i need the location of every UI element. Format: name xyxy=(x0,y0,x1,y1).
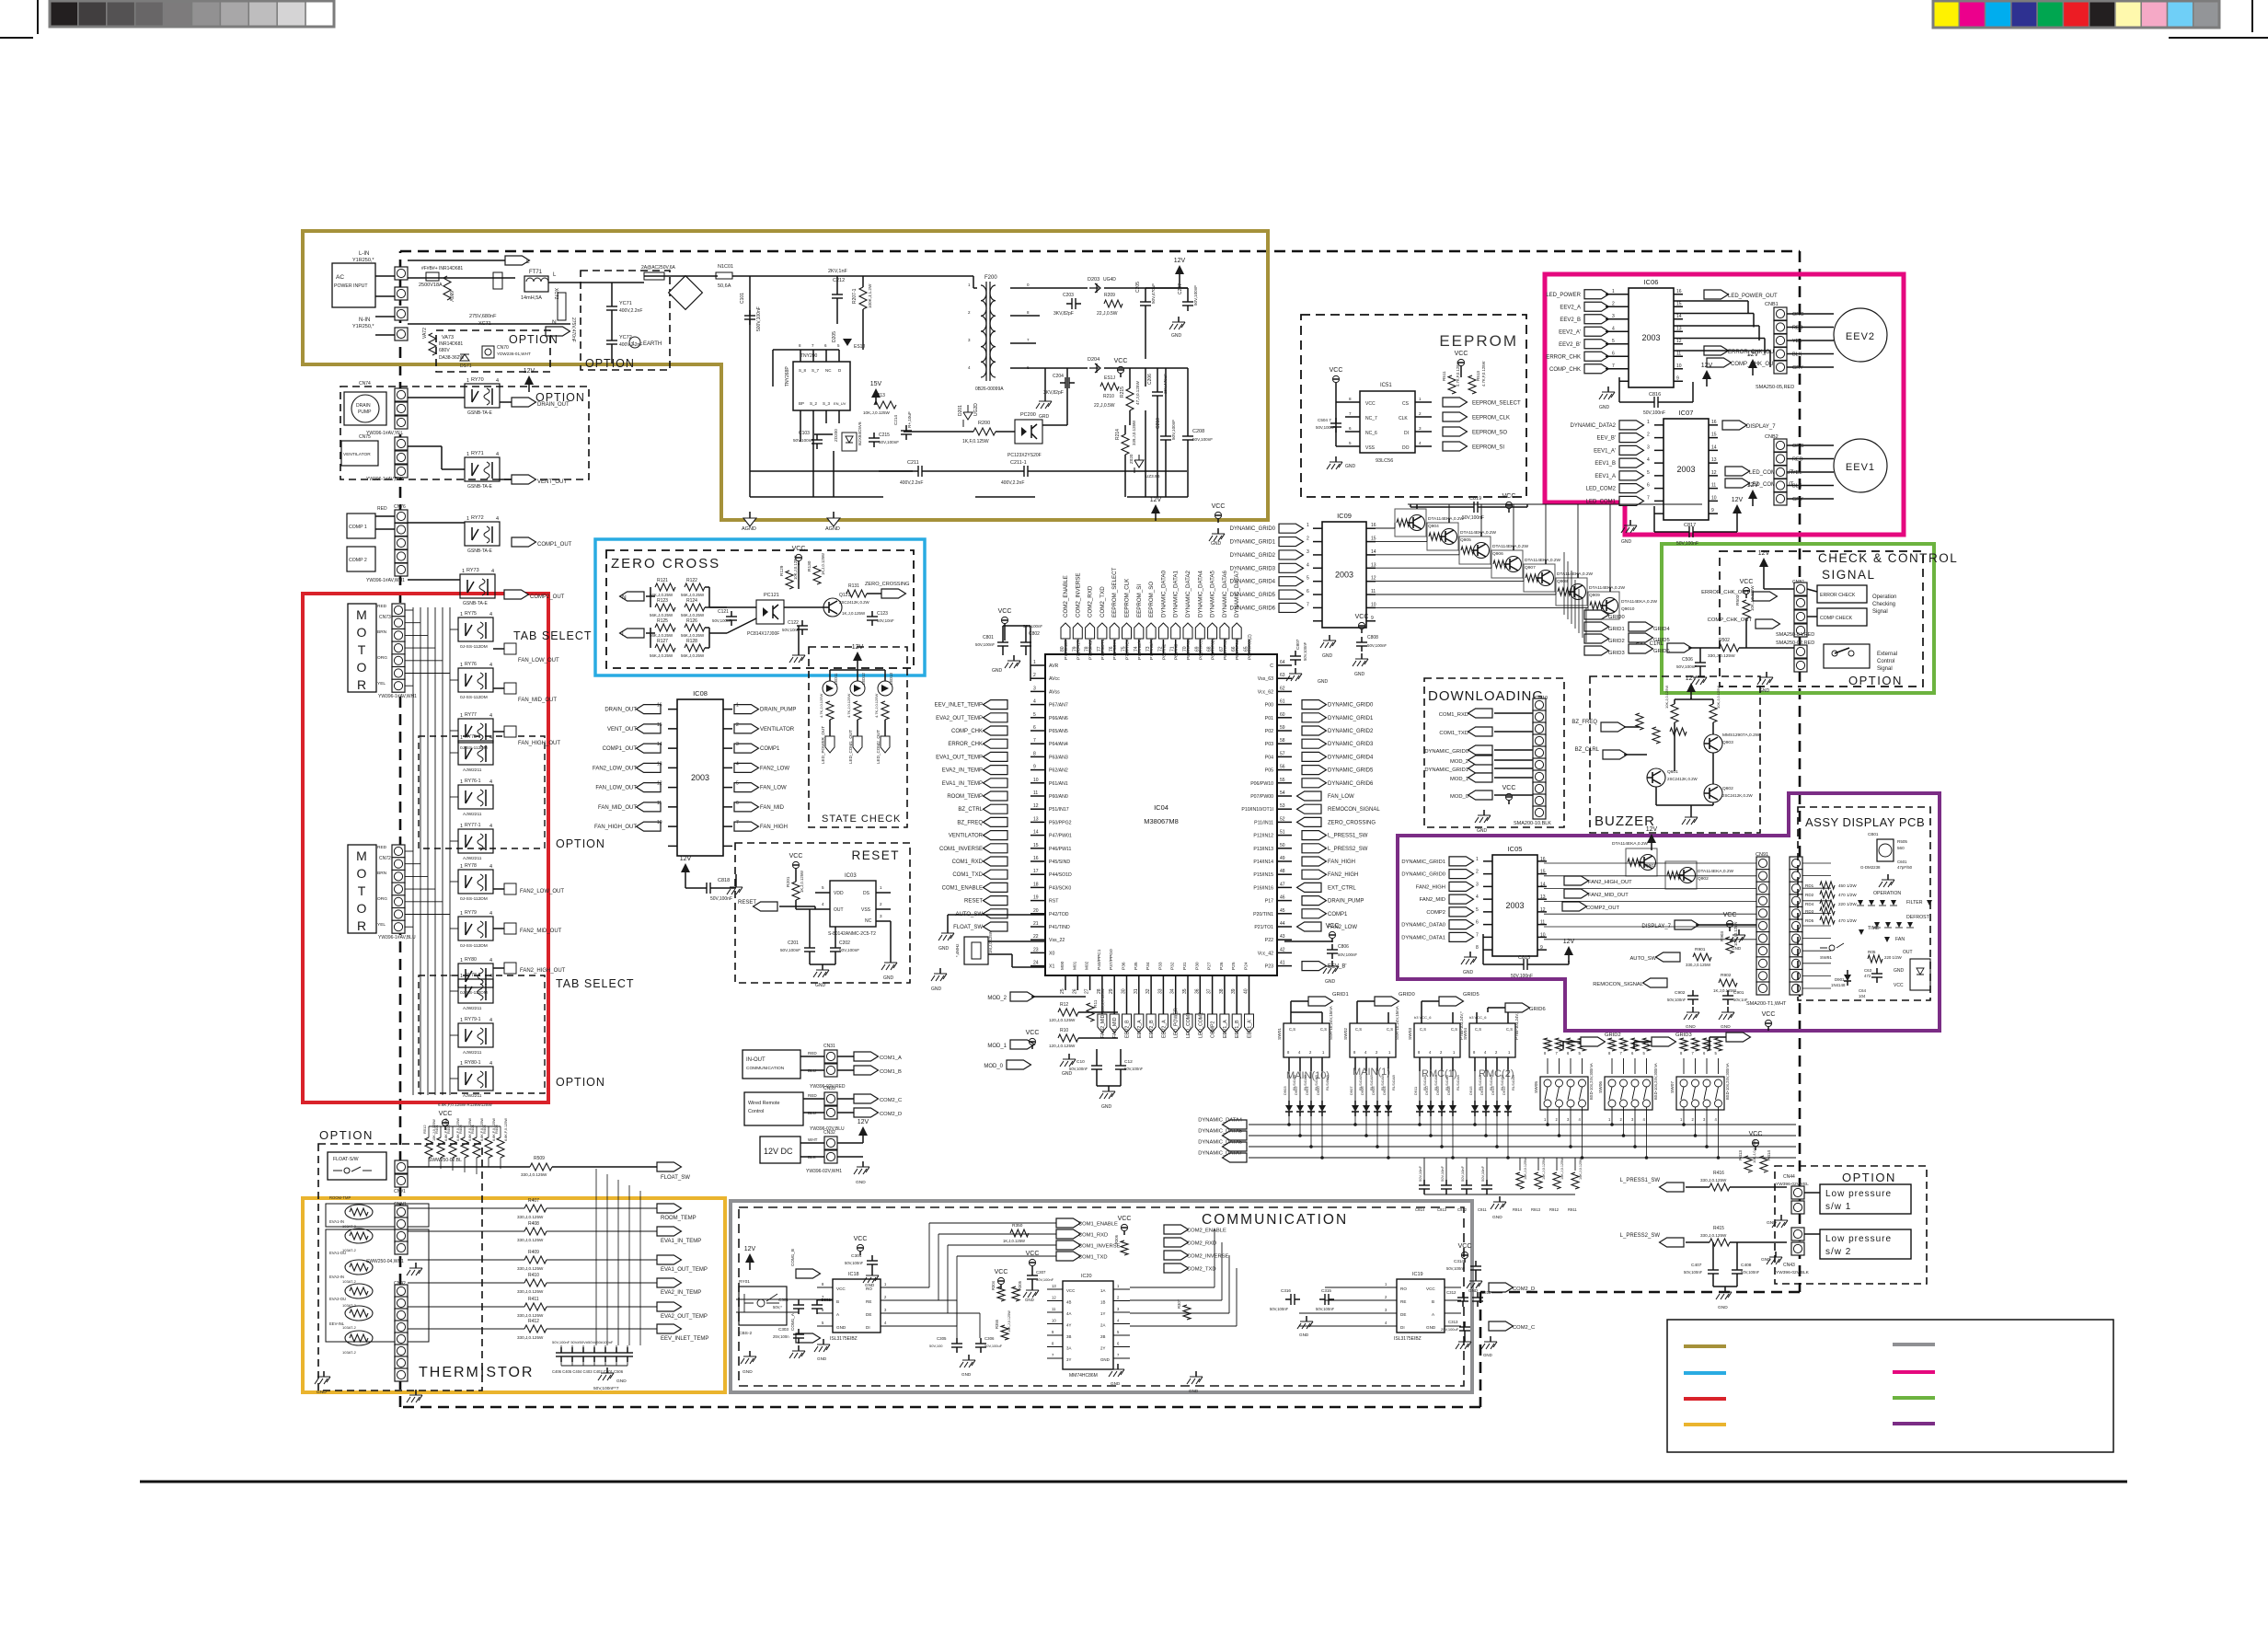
svg-text:P37/PPG0: P37/PPG0 xyxy=(1109,949,1114,970)
svg-text:R: R xyxy=(1647,1043,1651,1045)
svg-text:SWW250-02.BL: SWW250-02.BL xyxy=(429,1158,462,1163)
svg-text:4: 4 xyxy=(822,902,824,906)
svg-text:STATE CHECK: STATE CHECK xyxy=(822,813,901,825)
svg-text:ORG: ORG xyxy=(1792,444,1804,449)
svg-text:EEV2_A: EEV2_A xyxy=(1161,1020,1167,1038)
svg-text:R901: R901 xyxy=(1695,947,1706,952)
svg-text:50V,100nF: 50V,100nF xyxy=(975,642,995,647)
svg-text:LED_COM1: LED_COM1 xyxy=(1586,499,1617,504)
svg-text:5: 5 xyxy=(1307,576,1309,582)
svg-text:DYNAMIC_GRID5: DYNAMIC_GRID5 xyxy=(1328,768,1374,774)
svg-text:R413: R413 xyxy=(1738,1150,1743,1160)
svg-text:16: 16 xyxy=(1371,523,1376,528)
svg-text:2SC2412K,0.2W: 2SC2412K,0.2W xyxy=(1722,793,1754,798)
svg-text:RD1: RD1 xyxy=(1805,883,1814,888)
svg-text:56K,J,0.25W: 56K,J,0.25W xyxy=(681,633,705,638)
svg-text:0J-SS-112DM: 0J-SS-112DM xyxy=(460,644,488,650)
svg-text:50V,100nF: 50V,100nF xyxy=(1036,1277,1054,1282)
svg-text:RLS4148: RLS4148 xyxy=(1511,1075,1515,1090)
svg-text:1K,J,0.125W: 1K,J,0.125W xyxy=(821,553,825,575)
svg-text:EEV1_A': EEV1_A' xyxy=(1248,1019,1253,1038)
svg-text:FILTER: FILTER xyxy=(1906,900,1923,906)
svg-text:R: R xyxy=(357,677,366,692)
svg-text:10K,J,0.125W: 10K,J,0.125W xyxy=(793,556,798,580)
svg-text:SMA250-04,RED: SMA250-04,RED xyxy=(1776,632,1814,638)
svg-text:41: 41 xyxy=(1280,961,1285,966)
svg-text:P12/IN12: P12/IN12 xyxy=(1253,834,1273,839)
svg-text:COM2_TXD: COM2_TXD xyxy=(1187,1267,1216,1273)
svg-text:AUTO_SW: AUTO_SW xyxy=(1629,956,1656,962)
svg-text:REMOCON_SIGNAL: REMOCON_SIGNAL xyxy=(1328,807,1380,813)
svg-text:VCC: VCC xyxy=(1026,1251,1040,1257)
svg-text:13: 13 xyxy=(1676,326,1682,331)
svg-text:4Y: 4Y xyxy=(1066,1323,1071,1328)
svg-text:DYNAMIC_DATA6: DYNAMIC_DATA6 xyxy=(1222,570,1228,617)
svg-text:220 1/2W: 220 1/2W xyxy=(1838,902,1857,906)
svg-text:19: 19 xyxy=(1033,895,1039,901)
svg-text:1: 1 xyxy=(460,735,463,741)
svg-text:C819: C819 xyxy=(1469,496,1481,502)
svg-text:GSNB-TA-E: GSNB-TA-E xyxy=(467,410,493,416)
svg-text:100K,J,1.2W: 100K,J,1.2W xyxy=(868,283,872,308)
svg-text:34: 34 xyxy=(1170,988,1176,994)
svg-text:DYNAMIC_DATA2: DYNAMIC_DATA2 xyxy=(1185,570,1192,617)
svg-text:EEV2_B': EEV2_B' xyxy=(1559,342,1581,348)
svg-text:D902: D902 xyxy=(1294,1086,1298,1095)
svg-text:14mH,5A: 14mH,5A xyxy=(521,295,542,301)
svg-text:400V,2.2nF: 400V,2.2nF xyxy=(619,308,642,314)
svg-text:DTA114EKA,0.2W: DTA114EKA,0.2W xyxy=(1621,599,1657,605)
svg-text:L_PRESS2_SW: L_PRESS2_SW xyxy=(1620,1233,1661,1239)
svg-text:LED_COM1: LED_COM1 xyxy=(1186,1012,1192,1038)
svg-text:61: 61 xyxy=(1280,699,1285,705)
svg-text:C902: C902 xyxy=(1675,990,1686,996)
svg-text:15: 15 xyxy=(1033,843,1039,848)
svg-text:IC51: IC51 xyxy=(1380,383,1392,388)
svg-text:PUMP: PUMP xyxy=(358,410,372,415)
svg-text:47,J,0.125W: 47,J,0.125W xyxy=(1135,381,1140,405)
svg-text:GND: GND xyxy=(1463,970,1474,975)
svg-text:COM1_INVERSE: COM1_INVERSE xyxy=(939,847,983,852)
svg-text:COM2_D: COM2_D xyxy=(1513,1287,1535,1292)
svg-text:0J-SS-112DM: 0J-SS-112DM xyxy=(460,695,488,700)
svg-text:RY78: RY78 xyxy=(465,863,477,869)
svg-text:50V,100nF: 50V,100nF xyxy=(793,438,813,443)
svg-text:50V,10nF: 50V,10nF xyxy=(1418,1165,1422,1182)
svg-text:P43/SCK0: P43/SCK0 xyxy=(1049,885,1071,891)
svg-text:52: 52 xyxy=(1280,816,1285,822)
svg-text:R402: R402 xyxy=(446,1125,451,1134)
svg-text:48: 48 xyxy=(1280,869,1285,874)
svg-text:GND: GND xyxy=(1101,1104,1112,1110)
svg-text:R123: R123 xyxy=(657,598,668,604)
svg-text:P04: P04 xyxy=(1265,755,1273,760)
svg-text:330,J,0.125W: 330,J,0.125W xyxy=(517,1266,544,1271)
svg-text:C,S: C,S xyxy=(1420,1027,1426,1032)
svg-text:GSNB-TA-E: GSNB-TA-E xyxy=(467,484,493,490)
svg-text:C815: C815 xyxy=(1518,955,1530,961)
svg-text:12V DC: 12V DC xyxy=(764,1147,793,1156)
svg-text:15: 15 xyxy=(657,722,662,728)
svg-text:FAN2_HIGH: FAN2_HIGH xyxy=(1416,884,1445,890)
svg-text:57: 57 xyxy=(1280,751,1285,756)
svg-text:16: 16 xyxy=(1711,420,1717,425)
svg-text:RO: RO xyxy=(1400,1287,1407,1291)
svg-text:GRID1: GRID1 xyxy=(1332,992,1349,998)
svg-text:50V,100nF: 50V,100nF xyxy=(1741,1270,1760,1275)
svg-text:P45/SIND: P45/SIND xyxy=(1049,860,1070,865)
svg-text:Z020: Z020 xyxy=(1129,454,1134,464)
svg-text:S_3: S_3 xyxy=(823,401,831,406)
svg-text:FAN_HIGH: FAN_HIGH xyxy=(1328,860,1355,865)
svg-text:O: O xyxy=(357,660,367,675)
svg-text:20: 20 xyxy=(1033,908,1039,914)
svg-text:P10/IN10/OT1I: P10/IN10/OT1I xyxy=(1241,807,1273,813)
svg-text:Vss_22: Vss_22 xyxy=(1049,938,1065,943)
svg-text:103AT-2: 103AT-2 xyxy=(342,1279,357,1284)
svg-text:RLS4148: RLS4148 xyxy=(1391,1075,1396,1090)
svg-text:3: 3 xyxy=(880,914,882,918)
svg-text:13: 13 xyxy=(657,761,662,767)
svg-text:P25: P25 xyxy=(1231,962,1237,970)
svg-text:1: 1 xyxy=(460,779,463,785)
svg-text:FAN2_HIGH_OUT: FAN2_HIGH_OUT xyxy=(520,968,566,974)
svg-text:MMS12907A,0.2W: MMS12907A,0.2W xyxy=(1722,733,1760,738)
svg-text:D203: D203 xyxy=(1088,277,1099,283)
svg-text:D914: D914 xyxy=(1479,1086,1484,1095)
svg-text:RED: RED xyxy=(808,1093,817,1098)
svg-text:X0: X0 xyxy=(1049,951,1054,956)
svg-text:EEV1_A: EEV1_A xyxy=(1223,1020,1228,1038)
svg-text:21: 21 xyxy=(1033,921,1039,927)
svg-text:VCC: VCC xyxy=(1365,401,1376,407)
svg-text:EVA1_OUT_TEMP: EVA1_OUT_TEMP xyxy=(661,1267,708,1273)
svg-text:2KV,1nF: 2KV,1nF xyxy=(828,269,848,274)
svg-text:FAN_LOW: FAN_LOW xyxy=(1328,794,1354,800)
svg-text:OPTION: OPTION xyxy=(1842,1171,1896,1184)
svg-text:DYNAMIC_DATA0: DYNAMIC_DATA0 xyxy=(1160,570,1167,617)
svg-text:DYNAMIC_GRID2: DYNAMIC_GRID2 xyxy=(1328,729,1374,734)
svg-text:4: 4 xyxy=(489,864,492,870)
svg-text:SW91: SW91 xyxy=(1820,955,1832,961)
svg-text:2SC2412K,0.2W: 2SC2412K,0.2W xyxy=(839,600,870,605)
svg-text:IC05: IC05 xyxy=(1508,845,1523,853)
svg-text:P27: P27 xyxy=(1207,962,1213,970)
svg-text:#F#B#+ INR14D681: #F#B#+ INR14D681 xyxy=(421,266,463,271)
svg-text:3B: 3B xyxy=(1066,1334,1071,1339)
svg-text:50V,10nF: 50V,10nF xyxy=(1460,1165,1465,1182)
svg-text:DYNAMIC_DATA5: DYNAMIC_DATA5 xyxy=(1198,1129,1242,1135)
svg-text:2: 2 xyxy=(1419,411,1422,416)
svg-text:PT65-103,24V,*: PT65-103,24V,* xyxy=(1514,1011,1519,1040)
svg-text:EEPROM_SELECT: EEPROM_SELECT xyxy=(1472,401,1521,407)
svg-text:L_PRESS2_SW: L_PRESS2_SW xyxy=(1328,847,1368,852)
svg-text:1: 1 xyxy=(460,974,463,979)
svg-text:R130: R130 xyxy=(807,560,812,571)
svg-text:EEV_INLET_TEMP: EEV_INLET_TEMP xyxy=(661,1336,708,1342)
svg-text:1B: 1B xyxy=(1100,1300,1105,1305)
svg-text:GND: GND xyxy=(836,1325,846,1330)
svg-text:R121: R121 xyxy=(657,578,668,583)
svg-text:D903: D903 xyxy=(1283,1086,1287,1095)
svg-text:14: 14 xyxy=(1711,444,1717,450)
svg-text:P66/AN6: P66/AN6 xyxy=(1049,716,1068,721)
svg-text:P30: P30 xyxy=(1194,962,1200,970)
svg-text:COMP1: COMP1 xyxy=(760,746,780,752)
svg-text:COM1_TXD: COM1_TXD xyxy=(1078,1255,1108,1261)
svg-text:VCC: VCC xyxy=(1740,579,1754,585)
svg-text:C122: C122 xyxy=(788,620,799,626)
svg-text:VCC: VCC xyxy=(854,1236,868,1242)
svg-text:RY78-1: RY78-1 xyxy=(465,973,481,978)
svg-text:VCC: VCC xyxy=(1066,1288,1075,1293)
svg-text:C801: C801 xyxy=(983,635,994,640)
svg-text:GND: GND xyxy=(961,1372,972,1377)
svg-text:50V,*: 50V,* xyxy=(773,1305,782,1310)
svg-text:2Y: 2Y xyxy=(1100,1346,1105,1351)
svg-text:50V,100nF: 50V,100nF xyxy=(1192,437,1213,442)
svg-text:0B26-00099A: 0B26-00099A xyxy=(975,387,1004,392)
svg-text:VCC: VCC xyxy=(1114,358,1128,364)
svg-text:0J-SS-112DM: 0J-SS-112DM xyxy=(460,943,488,949)
svg-text:DO: DO xyxy=(1402,445,1410,451)
svg-text:12V: 12V xyxy=(1174,258,1186,264)
svg-text:COMP1: COMP1 xyxy=(1328,912,1348,917)
svg-text:DYNAMIC_GRID6: DYNAMIC_GRID6 xyxy=(1328,781,1374,787)
svg-text:680V: 680V xyxy=(448,291,454,302)
svg-text:C912: C912 xyxy=(1457,1207,1468,1212)
svg-text:DEFROST: DEFROST xyxy=(1906,915,1930,920)
svg-text:2: 2 xyxy=(880,902,882,906)
svg-text:GND: GND xyxy=(1062,1071,1073,1077)
svg-text:10K,J,0.125W: 10K,J,0.125W xyxy=(1716,686,1721,709)
svg-text:G-DM2238: G-DM2238 xyxy=(1860,865,1881,870)
svg-text:S_7: S_7 xyxy=(812,368,820,373)
svg-text:DYNAMIC_GRID5: DYNAMIC_GRID5 xyxy=(1230,593,1276,598)
svg-text:120,J,0.125W: 120,J,0.125W xyxy=(1049,1018,1076,1022)
svg-text:CNB1: CNB1 xyxy=(1765,302,1779,307)
svg-text:INR14D681: INR14D681 xyxy=(439,341,463,347)
svg-text:COM1_RXD: COM1_RXD xyxy=(1078,1233,1108,1239)
svg-text:GSNB-TA-E: GSNB-TA-E xyxy=(467,548,493,554)
svg-text:ERROR_CHK: ERROR_CHK xyxy=(1546,354,1581,360)
svg-text:4: 4 xyxy=(489,1018,492,1023)
svg-text:LED_POWER: LED_POWER xyxy=(1174,1008,1180,1038)
svg-text:DS: DS xyxy=(863,891,870,896)
svg-text:6: 6 xyxy=(1349,426,1352,431)
svg-text:R: R xyxy=(1612,1043,1616,1045)
svg-text:10K,J,0.125W: 10K,J,0.125W xyxy=(1664,686,1669,709)
svg-text:7: 7 xyxy=(1476,932,1479,938)
svg-text:4: 4 xyxy=(489,663,492,668)
svg-text:GND: GND xyxy=(1599,405,1610,410)
svg-text:2003: 2003 xyxy=(1335,571,1353,580)
svg-text:14: 14 xyxy=(1371,549,1376,555)
svg-text:COM1_TXD: COM1_TXD xyxy=(1439,731,1468,736)
svg-text:YEL: YEL xyxy=(1792,470,1802,476)
svg-text:4.7K,J,0.125W: 4.7K,J,0.125W xyxy=(819,694,823,718)
svg-text:R412: R412 xyxy=(528,1319,539,1324)
svg-text:LED12: LED12 xyxy=(861,673,866,685)
svg-text:1: 1 xyxy=(466,516,469,522)
svg-text:7: 7 xyxy=(736,820,739,825)
svg-text:CN74: CN74 xyxy=(359,381,371,387)
svg-text:P00: P00 xyxy=(1265,703,1273,709)
svg-text:D901: D901 xyxy=(1835,977,1845,982)
svg-text:R: R xyxy=(1548,1043,1551,1045)
svg-text:RY77-1: RY77-1 xyxy=(465,823,481,828)
svg-text:LED_COM1_OUT: LED_COM1_OUT xyxy=(848,730,853,764)
svg-text:C305: C305 xyxy=(937,1336,947,1341)
svg-text:MM74HC86M: MM74HC86M xyxy=(1069,1373,1098,1379)
svg-text:AGND: AGND xyxy=(825,526,840,532)
svg-text:R505: R505 xyxy=(1897,839,1907,844)
svg-text:12: 12 xyxy=(1711,470,1717,476)
svg-text:18: 18 xyxy=(1033,882,1039,887)
svg-text:400V,2.2nF: 400V,2.2nF xyxy=(619,342,642,348)
svg-text:16: 16 xyxy=(657,703,662,709)
svg-text:TAB SELECT: TAB SELECT xyxy=(513,629,592,642)
svg-text:50: 50 xyxy=(1280,843,1285,848)
svg-text:330,J,0.125W: 330,J,0.125W xyxy=(517,1215,544,1219)
svg-text:EEPROM_CLK: EEPROM_CLK xyxy=(1472,416,1510,421)
svg-text:C207: C207 xyxy=(1178,283,1183,294)
svg-text:50V,100uF: 50V,100uF xyxy=(984,1344,1003,1348)
svg-text:C601: C601 xyxy=(1897,860,1907,864)
svg-text:RESET: RESET xyxy=(851,848,900,862)
svg-text:D909: D909 xyxy=(1435,1086,1440,1095)
svg-text:Q121: Q121 xyxy=(839,593,850,598)
svg-text:4: 4 xyxy=(736,761,739,767)
svg-text:Q905: Q905 xyxy=(1460,537,1471,543)
svg-text:CBS-2: CBS-2 xyxy=(739,1331,752,1336)
svg-text:47pF/50: 47pF/50 xyxy=(1897,865,1913,870)
svg-text:C301: C301 xyxy=(778,1298,789,1302)
svg-text:VCC: VCC xyxy=(1326,923,1340,929)
svg-text:4: 4 xyxy=(1307,562,1309,568)
svg-text:3: 3 xyxy=(1612,314,1615,319)
svg-text:Q904: Q904 xyxy=(1428,524,1439,529)
svg-text:GND: GND xyxy=(1354,672,1365,677)
svg-text:12V: 12V xyxy=(858,1119,869,1125)
svg-text:FAN2_MID_OUT: FAN2_MID_OUT xyxy=(520,929,562,934)
svg-text:LED_POWER: LED_POWER xyxy=(1546,293,1581,298)
svg-text:C121: C121 xyxy=(718,609,729,615)
svg-text:C303: C303 xyxy=(778,1327,789,1332)
svg-text:COM1_ENABLE: COM1_ENABLE xyxy=(1078,1222,1118,1228)
svg-text:RST: RST xyxy=(1049,899,1059,905)
svg-text:GND: GND xyxy=(938,946,950,952)
svg-text:C205: C205 xyxy=(1135,282,1141,293)
svg-text:FAN_LOW: FAN_LOW xyxy=(760,786,787,791)
svg-text:P80/IN2: P80/IN2 xyxy=(1161,643,1167,660)
svg-text:EVA1_IN_TEMP: EVA1_IN_TEMP xyxy=(942,781,983,787)
svg-text:RY79: RY79 xyxy=(465,910,477,916)
svg-text:COM1_B: COM1_B xyxy=(880,1069,902,1075)
svg-text:42: 42 xyxy=(1280,947,1285,952)
svg-text:R407: R407 xyxy=(528,1198,539,1204)
svg-text:Q9010: Q9010 xyxy=(1621,606,1635,612)
svg-text:L: L xyxy=(622,631,626,638)
svg-text:VCC: VCC xyxy=(1502,493,1516,500)
svg-text:VENTILATOR: VENTILATOR xyxy=(949,834,984,839)
svg-text:50V,10nF: 50V,10nF xyxy=(877,618,894,623)
svg-text:FAN_MID_OUT: FAN_MID_OUT xyxy=(518,698,557,703)
svg-text:ISL3175EIBZ: ISL3175EIBZ xyxy=(1394,1336,1422,1342)
svg-text:FAN2_MID: FAN2_MID xyxy=(1420,897,1445,903)
svg-text:GND: GND xyxy=(743,1369,753,1375)
svg-text:M00: M00 xyxy=(1060,961,1065,970)
svg-text:GRID3: GRID3 xyxy=(1608,651,1625,656)
svg-text:X1: X1 xyxy=(1049,964,1054,970)
svg-text:56: 56 xyxy=(1280,765,1285,770)
svg-text:15: 15 xyxy=(1371,537,1376,542)
svg-text:5: 5 xyxy=(1612,339,1615,344)
svg-text:12V: 12V xyxy=(524,368,535,375)
svg-text:1: 1 xyxy=(460,1061,463,1067)
svg-text:D904: D904 xyxy=(1382,1086,1387,1095)
svg-text:N1C01: N1C01 xyxy=(718,264,733,270)
svg-text:AVss: AVss xyxy=(1049,689,1060,695)
svg-text:COM2_C: COM2_C xyxy=(1513,1325,1535,1331)
svg-text:RD5: RD5 xyxy=(1805,918,1814,923)
svg-text:EVA2_OUT_TEMP: EVA2_OUT_TEMP xyxy=(936,716,983,721)
svg-text:2500V18A: 2500V18A xyxy=(419,283,443,288)
svg-text:C,S: C,S xyxy=(1475,1027,1481,1032)
svg-text:SSR-10,24V,15mA: SSR-10,24V,15mA xyxy=(1329,1006,1333,1040)
svg-text:1: 1 xyxy=(460,864,463,870)
svg-text:External: External xyxy=(1877,652,1897,657)
svg-text:COM2_RXD: COM2_RXD xyxy=(1088,585,1094,617)
svg-text:GND: GND xyxy=(1426,1325,1436,1330)
svg-text:COM1_B: COM1_B xyxy=(790,1249,795,1266)
svg-text:R215: R215 xyxy=(1120,387,1125,398)
svg-text:SW03: SW03 xyxy=(1408,1028,1413,1040)
svg-text:4: 4 xyxy=(491,569,494,574)
svg-text:DYNAMIC_GRID1: DYNAMIC_GRID1 xyxy=(1230,540,1276,546)
svg-text:50V,10nF: 50V,10nF xyxy=(1480,1165,1485,1182)
svg-text:EEV2_A: EEV2_A xyxy=(1137,1020,1143,1038)
svg-text:3: 3 xyxy=(1307,549,1309,555)
svg-text:R355: R355 xyxy=(995,1319,999,1329)
svg-text:FAN2_HIGH_OUT: FAN2_HIGH_OUT xyxy=(1588,880,1632,885)
svg-text:50V,470uF: 50V,470uF xyxy=(1151,283,1156,304)
svg-text:NC_6: NC_6 xyxy=(1365,431,1377,436)
svg-text:EEPROM: EEPROM xyxy=(1439,332,1518,350)
svg-text:Y1R250,*: Y1R250,* xyxy=(352,258,374,263)
svg-text:DYNAMIC_DATA1: DYNAMIC_DATA1 xyxy=(1173,570,1180,617)
svg-text:VCC: VCC xyxy=(1723,912,1737,918)
svg-text:ASSY DISPLAY PCB: ASSY DISPLAY PCB xyxy=(1805,815,1925,829)
svg-text:OPTION: OPTION xyxy=(319,1128,374,1142)
svg-text:EEPROM_CLK: EEPROM_CLK xyxy=(1124,578,1131,617)
svg-text:9: 9 xyxy=(1711,508,1714,513)
svg-text:EVA2_OUT_TEMP: EVA2_OUT_TEMP xyxy=(661,1314,708,1320)
svg-text:1A: 1A xyxy=(1100,1288,1105,1293)
svg-text:DRAIN: DRAIN xyxy=(356,403,371,409)
svg-text:RED: RED xyxy=(808,1051,817,1056)
svg-text:DTA114EKA,0.2W: DTA114EKA,0.2W xyxy=(1428,516,1464,522)
svg-text:39: 39 xyxy=(1231,988,1237,994)
svg-text:VCC: VCC xyxy=(1118,1216,1132,1222)
svg-text:BSD-104,24V,300mA: BSD-104,24V,300mA xyxy=(1725,1063,1730,1100)
svg-text:DE: DE xyxy=(866,1312,871,1317)
svg-text:EARTH: EARTH xyxy=(643,341,662,347)
svg-text:22,J,0.5W: 22,J,0.5W xyxy=(1094,403,1115,409)
svg-text:P21/TO1: P21/TO1 xyxy=(1254,925,1273,930)
svg-text:CN73: CN73 xyxy=(379,615,391,620)
svg-text:PC121: PC121 xyxy=(764,593,779,598)
